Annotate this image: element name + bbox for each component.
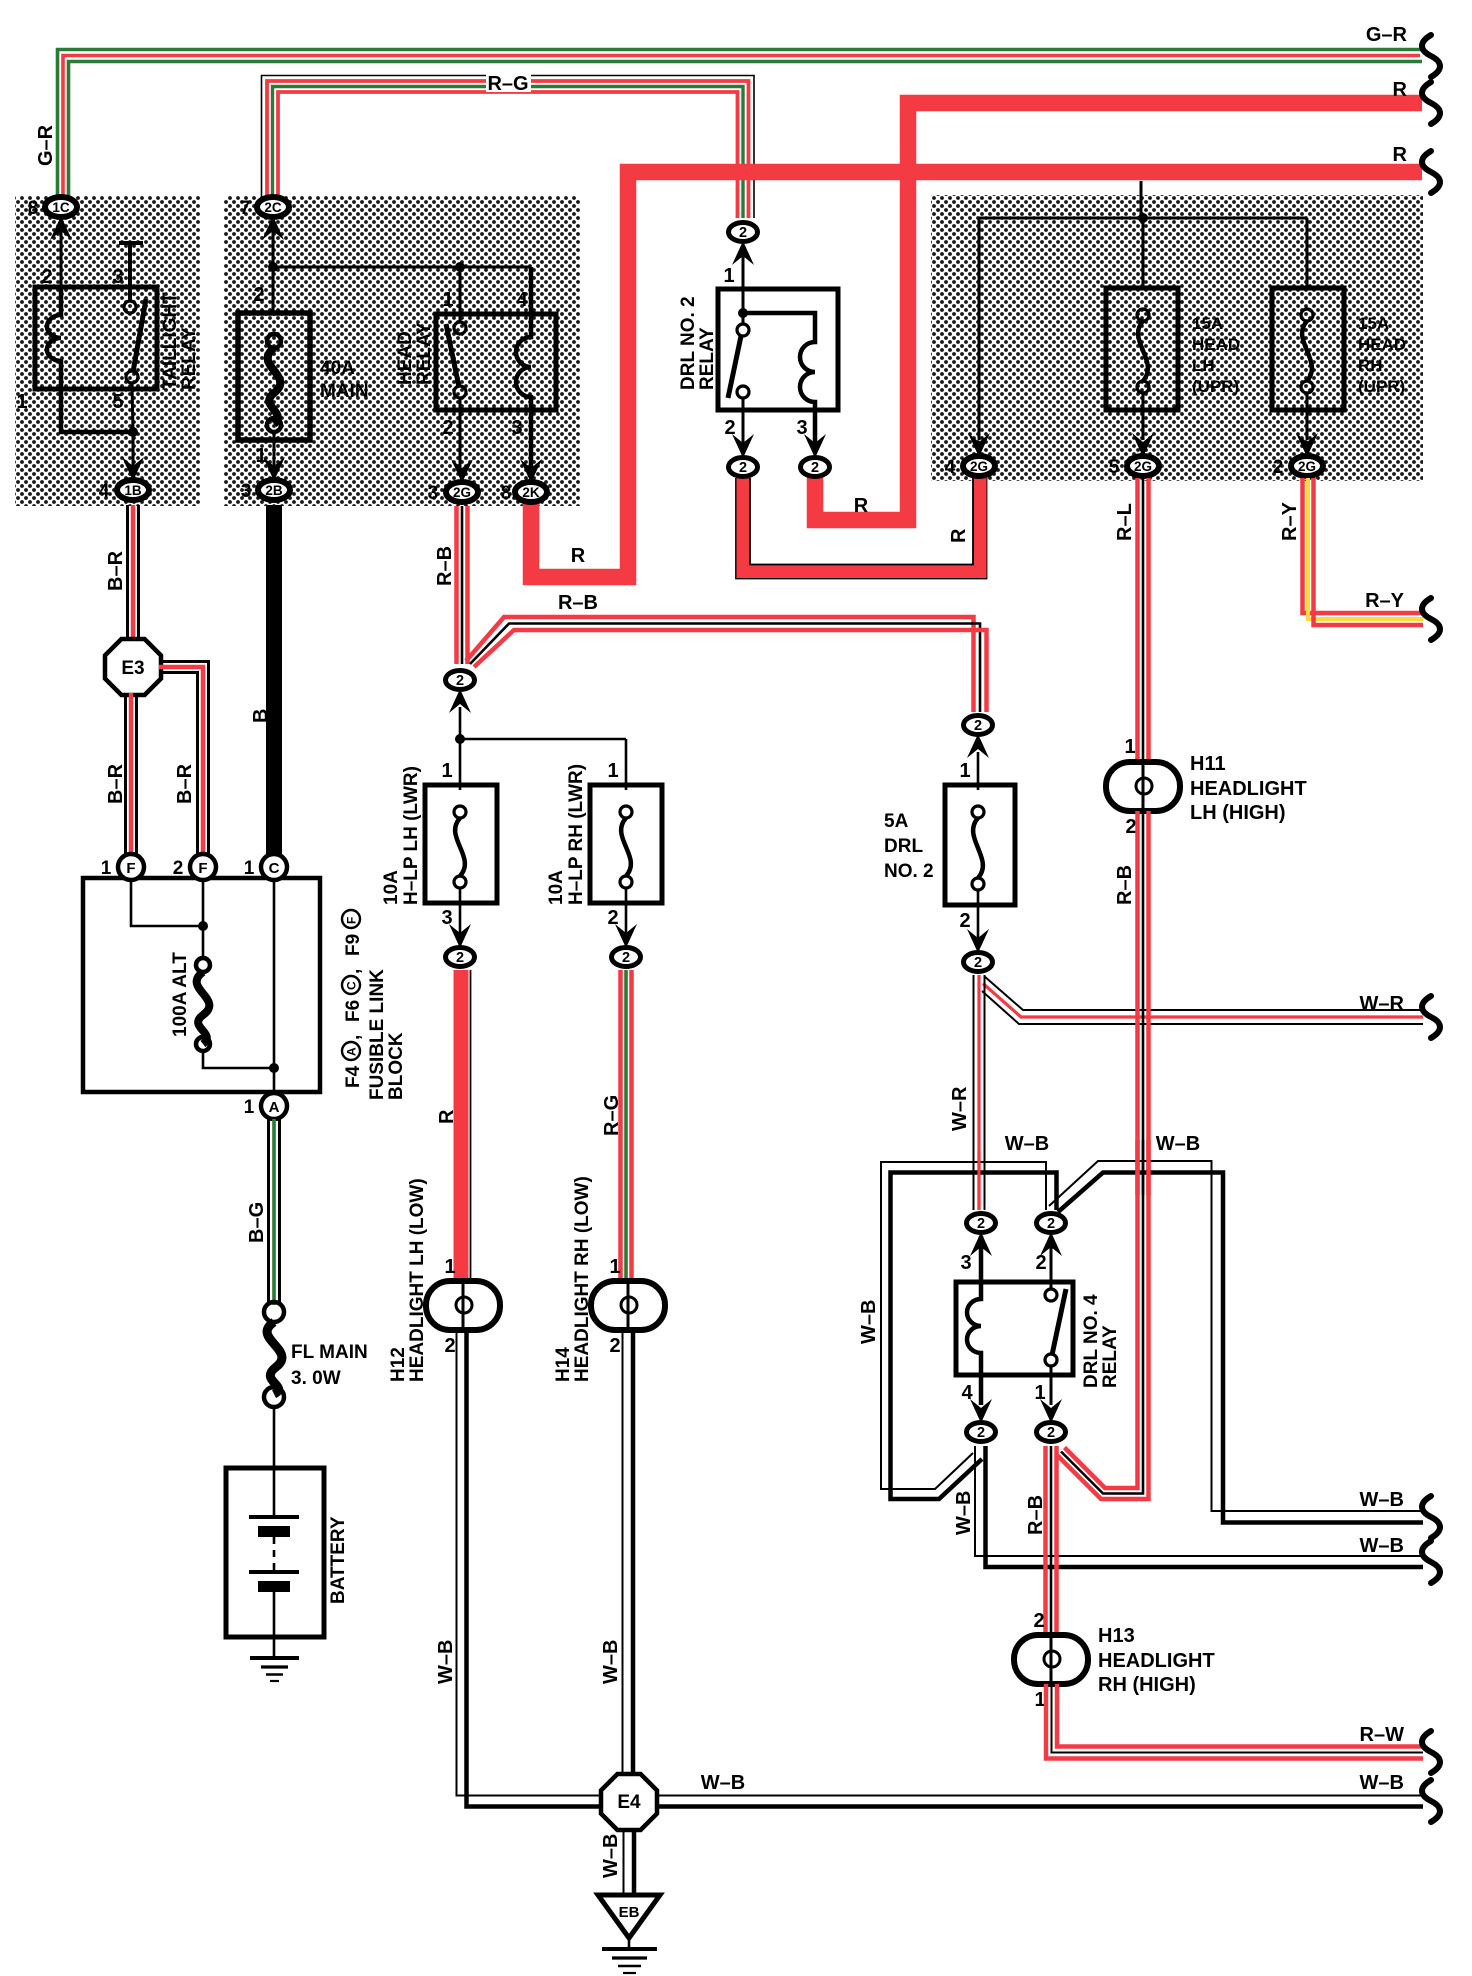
- wire label R-G: [486, 73, 531, 92]
- svg-text:R–G: R–G: [487, 73, 528, 95]
- head relay coil: [516, 267, 531, 468]
- svg-text:RELAY: RELAY: [179, 327, 200, 390]
- junction box 3 shading (headlight fuse block): [931, 195, 1423, 481]
- svg-text:5: 5: [1109, 457, 1120, 478]
- taillight relay coil: [47, 287, 133, 432]
- svg-text:2: 2: [1047, 1216, 1055, 1232]
- wire R-B (junction connector to 5A DRL fuse): [466, 617, 987, 712]
- connector 2K: [501, 482, 547, 504]
- svg-text:R–B: R–B: [1114, 865, 1136, 905]
- svg-text:8: 8: [501, 483, 512, 504]
- svg-text:1C: 1C: [52, 200, 70, 215]
- svg-text:3: 3: [112, 266, 123, 288]
- svg-text:W–R: W–R: [1360, 993, 1405, 1015]
- taillight relay box: [35, 287, 157, 389]
- junction (2C rail to 40A fuse): [268, 262, 278, 272]
- arrow into 2G pin 2: [1296, 433, 1318, 457]
- svg-text:4: 4: [99, 481, 110, 502]
- wire B-G (A to FL MAIN): [269, 1119, 280, 1305]
- arrow into 2K: [520, 459, 542, 483]
- splice E3: [105, 639, 161, 695]
- wire R (head relay coil feed: top edge to DRL No.2 relay pin 3): [815, 103, 1422, 520]
- svg-text:H11: H11: [1190, 753, 1226, 775]
- svg-text:C: C: [345, 981, 359, 990]
- wire W-R (5A fuse out to right edge): [982, 976, 1423, 1024]
- svg-text:2: 2: [1035, 1252, 1046, 1274]
- svg-text:HEAD: HEAD: [1358, 335, 1406, 354]
- arrow into 2G (head relay): [451, 459, 473, 483]
- fuse 100A ALT: [196, 958, 210, 972]
- svg-text:W–B: W–B: [1005, 1133, 1049, 1155]
- wire R-B (DRL No.4 pin 1 to H13): [1046, 1446, 1057, 1635]
- svg-text:LH: LH: [1192, 356, 1215, 375]
- wire W-B (DRL No.4 pin 2 left loop to ground run): [881, 1162, 1057, 1499]
- svg-text:R–B: R–B: [558, 592, 598, 614]
- svg-text:2B: 2B: [265, 483, 283, 498]
- svg-text:R: R: [1393, 79, 1408, 101]
- wire W-B (E4 to right edge): [657, 1795, 1423, 1797]
- svg-text:2: 2: [609, 1335, 620, 1357]
- svg-text:W–B: W–B: [600, 1640, 622, 1684]
- svg-text:(UPR): (UPR): [1192, 377, 1239, 396]
- svg-text:B–R: B–R: [174, 763, 196, 804]
- DRL No.4 relay coil: [967, 1236, 981, 1405]
- svg-text:R: R: [948, 528, 970, 543]
- svg-text:2: 2: [977, 1216, 985, 1232]
- svg-text:RELAY: RELAY: [414, 322, 435, 385]
- svg-text:40A: 40A: [320, 358, 355, 379]
- svg-text:15A: 15A: [1192, 314, 1223, 333]
- wire (2C to 40A MAIN fuse and head relay rail): [272, 222, 275, 313]
- svg-text:HEADLIGHT: HEADLIGHT: [1190, 778, 1307, 800]
- svg-text:1B: 1B: [124, 483, 142, 498]
- svg-text:2G: 2G: [1134, 459, 1152, 474]
- connector 2C: [240, 197, 289, 219]
- svg-text:5A: 5A: [884, 811, 909, 832]
- junction (100A ALT output tie): [269, 1063, 279, 1073]
- connector 2 (5A fuse out): [964, 953, 993, 972]
- junction (fuse rail feed): [1138, 213, 1148, 223]
- svg-text:1: 1: [1034, 1382, 1045, 1404]
- wire R-W (H13 pin 1 to right edge): [1046, 1684, 1423, 1759]
- head relay switch contacts: [454, 322, 466, 334]
- DRL No.4 relay switch blade: [1052, 1289, 1066, 1355]
- svg-text:1: 1: [244, 858, 255, 879]
- svg-text:7: 7: [240, 198, 251, 219]
- DRL No.2 relay: [742, 248, 745, 313]
- junction box 2 shading (head relay / 40A main block): [224, 196, 580, 506]
- wire R squiggle (first right exit): [1422, 82, 1440, 124]
- svg-text:4: 4: [516, 289, 528, 311]
- svg-text:W–B: W–B: [1360, 1489, 1404, 1511]
- svg-text:1: 1: [244, 1097, 255, 1118]
- svg-text:R: R: [854, 495, 869, 517]
- svg-text:15A: 15A: [1358, 314, 1389, 333]
- fuse 15A HEAD LH (UPR): [1106, 288, 1178, 410]
- svg-text:2: 2: [977, 1425, 985, 1441]
- wire R-G (fuse to H14 headlight): [621, 970, 632, 1281]
- wire (connector to both 10A fuses): [459, 707, 462, 790]
- svg-text:1: 1: [101, 858, 112, 879]
- wire R-Y (2G pin 2 to right edge): [1303, 478, 1424, 625]
- wire W-B (H12 to E4): [457, 1330, 605, 1796]
- svg-text:F: F: [198, 860, 207, 877]
- svg-text:BLOCK: BLOCK: [386, 1032, 407, 1100]
- taillight relay switch blade: [133, 299, 146, 372]
- svg-text:2: 2: [739, 225, 747, 241]
- arrow into 2C: [262, 216, 284, 240]
- svg-text:RH: RH: [1358, 356, 1383, 375]
- junction box 1 shading (taillight relay block): [15, 196, 200, 506]
- svg-text:2: 2: [173, 858, 184, 879]
- svg-text:HEADLIGHT: HEADLIGHT: [1098, 1650, 1215, 1672]
- svg-text:DRL NO. 2: DRL NO. 2: [678, 296, 699, 390]
- svg-text:H–LP RH (LWR): H–LP RH (LWR): [566, 764, 587, 905]
- svg-text:B–G: B–G: [246, 1202, 268, 1243]
- svg-text:5: 5: [112, 391, 123, 413]
- svg-text:DRL NO. 4: DRL NO. 4: [1081, 1294, 1102, 1388]
- svg-text:B–R: B–R: [105, 550, 127, 591]
- svg-text:F: F: [345, 917, 359, 924]
- svg-text:2: 2: [1273, 457, 1284, 478]
- svg-text:RELAY: RELAY: [697, 327, 718, 390]
- svg-text:BATTERY: BATTERY: [328, 1516, 349, 1604]
- wire W-B (H14 to E4): [622, 1330, 624, 1776]
- head relay switch blade: [446, 324, 459, 387]
- svg-text:W–R: W–R: [949, 1086, 971, 1131]
- wire (switch to 1B): [132, 383, 133, 432]
- svg-text:W–B: W–B: [435, 1640, 457, 1684]
- svg-text:8: 8: [28, 198, 39, 219]
- svg-text:R–Y: R–Y: [1365, 590, 1405, 612]
- svg-text:F: F: [126, 860, 135, 877]
- arrow into 1C: [50, 216, 72, 240]
- arrow into DRL No.4 switch bottom connector: [1040, 1399, 1062, 1423]
- wire R-B (overdraw of H11 branch crossing W-B): [1138, 1140, 1149, 1195]
- svg-text:2: 2: [974, 955, 982, 971]
- svg-text:,: ,: [343, 1035, 364, 1040]
- ground (battery): [250, 1658, 299, 1681]
- svg-text:W–B: W–B: [600, 1834, 622, 1878]
- svg-text:B–R: B–R: [105, 763, 127, 804]
- svg-text:LH (HIGH): LH (HIGH): [1190, 802, 1286, 824]
- svg-text:1: 1: [723, 265, 734, 287]
- svg-text:2: 2: [959, 910, 970, 932]
- wire W-R (overdraw of coil feed crossing W-B): [974, 1150, 985, 1210]
- svg-text:3: 3: [511, 417, 522, 439]
- svg-text:W–B: W–B: [1360, 1772, 1404, 1794]
- svg-text:W–B: W–B: [858, 1300, 880, 1344]
- connector 2 (DRL No.2 relay pin 1): [729, 223, 758, 242]
- connector 2 (H-LP fuse feed): [446, 671, 475, 690]
- svg-text:NO. 2: NO. 2: [884, 861, 934, 882]
- svg-text:R–L: R–L: [1114, 503, 1136, 541]
- wire G-R (connector 1C to top right edge): [58, 50, 1423, 208]
- connector 2G (head relay switch output): [428, 482, 478, 504]
- connector 2G pin 5: [1109, 456, 1159, 478]
- junction (DRL No.2 relay pin 1 node): [738, 308, 748, 318]
- bulb H12 HEADLIGHT LH (LOW): [388, 1178, 500, 1382]
- wire R (connector 2G pin 4 to DRL No.2 relay pin 2, U route): [736, 476, 987, 579]
- splice E4: [601, 1774, 657, 1830]
- DRL No.4 relay switch contacts: [1045, 1289, 1057, 1301]
- svg-text:C: C: [269, 860, 280, 877]
- svg-text:3: 3: [960, 1252, 971, 1274]
- svg-text:HEAD: HEAD: [395, 331, 416, 385]
- taillight relay switch contacts: [124, 301, 136, 313]
- svg-text:A: A: [345, 1047, 359, 1056]
- fusible link block box: [83, 878, 320, 1092]
- svg-text:R–B: R–B: [434, 546, 456, 586]
- svg-text:F9: F9: [343, 934, 364, 956]
- wire R-B (2G pin 3 down to junction connector): [457, 506, 468, 664]
- svg-text:1: 1: [609, 1256, 620, 1278]
- svg-text:R–G: R–G: [601, 1095, 623, 1136]
- svg-text:2: 2: [622, 950, 630, 966]
- svg-text:1: 1: [959, 760, 970, 782]
- connector 1B: [99, 480, 149, 502]
- svg-text:A: A: [269, 1099, 280, 1116]
- svg-text:10A: 10A: [381, 870, 402, 905]
- svg-text:RELAY: RELAY: [1100, 1325, 1121, 1388]
- connector 2 (H-LP LH fuse out): [446, 948, 475, 967]
- connector 2 (DRL No.4 pin 4): [967, 1423, 996, 1442]
- arrow into DRL No.4 coil bottom connector: [970, 1399, 992, 1423]
- arrow into DRL No.2 relay pin 3 connector: [804, 434, 826, 458]
- svg-text:2: 2: [41, 266, 52, 288]
- fuse 10A H-LP RH (LWR): [590, 785, 662, 903]
- connector 2 (DRL No.2 relay pin 3): [801, 458, 830, 477]
- svg-text:2: 2: [1125, 816, 1136, 838]
- svg-text:F4: F4: [343, 1065, 364, 1088]
- junction (fusible link F1/F2 tie): [198, 921, 208, 931]
- arrow into H-LP junction connector: [449, 689, 471, 713]
- svg-text:H–LP LH (LWR): H–LP LH (LWR): [401, 766, 422, 905]
- wire W-B (E4 to EB ground): [623, 1830, 625, 1895]
- svg-text:(UPR): (UPR): [1358, 377, 1405, 396]
- svg-text:2: 2: [456, 950, 464, 966]
- svg-text:,: ,: [343, 969, 364, 974]
- connector 2 (H-LP RH fuse out): [612, 948, 641, 967]
- wire R-B (H11 pin 2 down, joining H13 branch): [1058, 811, 1149, 1499]
- svg-text:HEADLIGHT RH (LOW): HEADLIGHT RH (LOW): [572, 1176, 593, 1382]
- bulb H14 HEADLIGHT RH (LOW): [553, 1176, 665, 1382]
- bulb H13 HEADLIGHT RH (HIGH): [1014, 1610, 1215, 1711]
- svg-text:RH (HIGH): RH (HIGH): [1098, 1674, 1196, 1696]
- svg-text:4: 4: [945, 457, 956, 478]
- svg-text:2: 2: [1033, 1610, 1044, 1632]
- junction (10A fuse feed split): [455, 734, 465, 744]
- wire B-R (E3 to fusible link F pin 1): [126, 693, 137, 856]
- connector F pin 2: [173, 854, 216, 880]
- connector 2B: [241, 480, 290, 502]
- wire (1C connector to taillight relay coil): [60, 222, 63, 290]
- junction (rail to head relay switch): [455, 262, 465, 272]
- svg-text:W–B: W–B: [701, 1772, 745, 1794]
- svg-text:3. 0W: 3. 0W: [291, 1368, 341, 1389]
- wire R-L (2G pin 5 to H11): [1138, 478, 1149, 763]
- wire (rail to head relay switch): [459, 267, 462, 302]
- svg-text:1: 1: [444, 1256, 455, 1278]
- connector 2 (DRL No.4 pin 2): [1037, 1214, 1066, 1233]
- svg-text:100A ALT: 100A ALT: [170, 952, 191, 1037]
- svg-text:HEAD: HEAD: [1192, 335, 1240, 354]
- DRL No.2 relay switch contacts: [737, 324, 749, 336]
- svg-text:G–R: G–R: [35, 124, 57, 166]
- svg-text:H14: H14: [553, 1347, 574, 1382]
- ground EB: [598, 1895, 660, 1973]
- wire R-G (connector 2C to DRL No.2 relay connector): [262, 76, 755, 219]
- arrow into 1B: [122, 457, 144, 481]
- svg-text:3: 3: [241, 481, 252, 502]
- svg-text:2: 2: [1047, 1425, 1055, 1441]
- arrow into 5A fuse out connector: [967, 929, 989, 953]
- svg-text:E3: E3: [121, 658, 144, 679]
- label F4(A), F6(C), F9(F): [342, 910, 364, 1088]
- connector F pin 1: [101, 854, 144, 880]
- svg-text:E4: E4: [617, 1792, 641, 1813]
- connector 2G pin 2: [1273, 456, 1323, 478]
- svg-text:3: 3: [428, 483, 439, 504]
- arrow into H-LP LH output connector: [449, 924, 471, 948]
- taillight relay switch top stub: [119, 243, 143, 301]
- svg-text:1: 1: [16, 391, 27, 413]
- svg-text:F6: F6: [343, 1000, 364, 1022]
- svg-text:W–B: W–B: [953, 1491, 975, 1535]
- svg-text:EB: EB: [619, 1904, 640, 1921]
- svg-text:G–R: G–R: [1366, 24, 1408, 46]
- svg-text:R: R: [436, 1109, 458, 1124]
- head relay box: [436, 314, 556, 410]
- connector 2G pin 4: [945, 456, 995, 478]
- fuse 10A H-LP LH (LWR): [425, 785, 497, 903]
- svg-text:2: 2: [444, 1335, 455, 1357]
- svg-text:1: 1: [1124, 736, 1135, 758]
- svg-text:2: 2: [811, 460, 819, 476]
- wire G-R end squiggle: [1422, 35, 1440, 77]
- svg-text:H13: H13: [1098, 1625, 1135, 1647]
- wire R (fuse to H12 headlight): [454, 970, 469, 1281]
- arrow into 5A fuse feed connector: [967, 734, 989, 758]
- wire B (2B to fusible link C): [266, 505, 282, 856]
- svg-text:1: 1: [442, 289, 453, 311]
- wire R (connector 2K to right edge): [531, 172, 1422, 577]
- svg-text:MAIN: MAIN: [320, 381, 369, 402]
- svg-text:R: R: [1393, 144, 1408, 166]
- svg-text:R–W: R–W: [1360, 1724, 1405, 1746]
- fuse 40A MAIN: [238, 313, 310, 440]
- connector 2 (DRL No.4 pin 3): [967, 1214, 996, 1233]
- headlight fuse rail: [979, 217, 1307, 220]
- arrow into DRL No.4 coil top connector: [970, 1232, 992, 1256]
- arrow into H-LP RH output connector: [615, 924, 637, 948]
- DRL No.2 relay coil: [743, 313, 815, 445]
- wire W-B (DRL No.4 pin 4 to right edge ground): [975, 1446, 1423, 1567]
- svg-text:B: B: [250, 709, 272, 723]
- arrow into 2G pin 4: [968, 433, 990, 457]
- svg-text:R: R: [571, 545, 586, 567]
- arrow into DRL No.4 switch top connector: [1040, 1232, 1062, 1256]
- svg-text:2: 2: [442, 417, 453, 439]
- svg-text:2: 2: [456, 673, 464, 689]
- connector C: [244, 854, 287, 880]
- svg-text:R–B: R–B: [1025, 1495, 1047, 1535]
- DRL No.2 relay switch blade: [728, 336, 741, 398]
- svg-text:H12: H12: [388, 1347, 409, 1382]
- connector 2 (DRL No.2 relay pin 2): [729, 458, 758, 477]
- svg-text:2: 2: [974, 718, 982, 734]
- arrow into DRL No.2 relay top connector: [732, 241, 754, 265]
- svg-text:R–Y: R–Y: [1279, 501, 1301, 541]
- svg-text:W–B: W–B: [1156, 1133, 1200, 1155]
- wire R squiggle (second right exit): [1422, 151, 1440, 193]
- svg-text:TAILLIGHT: TAILLIGHT: [160, 292, 181, 390]
- svg-text:2G: 2G: [1298, 459, 1316, 474]
- fusible link FL MAIN 3.0W: [264, 1302, 284, 1322]
- svg-text:1: 1: [441, 760, 452, 782]
- DRL No.4 relay: [956, 1282, 1073, 1375]
- wire W-R (5A fuse out to DRL No.4 relay coil): [974, 975, 985, 1210]
- svg-text:2G: 2G: [453, 485, 471, 500]
- svg-text:FUSIBLE LINK: FUSIBLE LINK: [367, 969, 388, 1100]
- svg-text:2G: 2G: [970, 459, 988, 474]
- svg-text:2K: 2K: [522, 485, 540, 500]
- arrow into DRL No.2 relay pin 2 connector: [732, 434, 754, 458]
- wire B-R (1B to E3): [128, 505, 139, 642]
- fuse 5A DRL NO. 2: [945, 785, 1015, 905]
- wire (R line drop into headlight fuse rail): [1140, 181, 1143, 218]
- arrow into 2B: [263, 457, 285, 481]
- connector A: [244, 1093, 287, 1119]
- connector 1C: [28, 197, 77, 219]
- svg-text:10A: 10A: [546, 870, 567, 905]
- connector 2 (5A fuse feed): [964, 716, 993, 735]
- arrow into 2G pin 5: [1132, 433, 1154, 457]
- svg-text:2: 2: [253, 284, 264, 306]
- wire B-R (E3 to fusible link F pin 2): [159, 662, 209, 857]
- wire W-B (DRL No.4 pin 2 right branch to right edge): [1049, 1161, 1423, 1523]
- connector 2 (DRL No.4 pin 1): [1037, 1423, 1066, 1442]
- svg-text:2: 2: [739, 460, 747, 476]
- svg-text:W–B: W–B: [1360, 1535, 1404, 1557]
- junction (taillight relay output): [128, 427, 138, 437]
- svg-text:HEADLIGHT LH (LOW): HEADLIGHT LH (LOW): [407, 1178, 428, 1382]
- svg-text:FL MAIN: FL MAIN: [291, 1342, 368, 1363]
- svg-text:1: 1: [607, 760, 618, 782]
- svg-text:DRL: DRL: [884, 836, 923, 857]
- svg-text:2C: 2C: [264, 200, 282, 215]
- fusible link block internal wiring: [131, 880, 203, 926]
- bulb H11 HEADLIGHT LH (HIGH): [1106, 736, 1307, 838]
- svg-text:1: 1: [255, 445, 266, 467]
- battery: [226, 1468, 324, 1637]
- fuse 15A HEAD RH (UPR): [1272, 288, 1344, 410]
